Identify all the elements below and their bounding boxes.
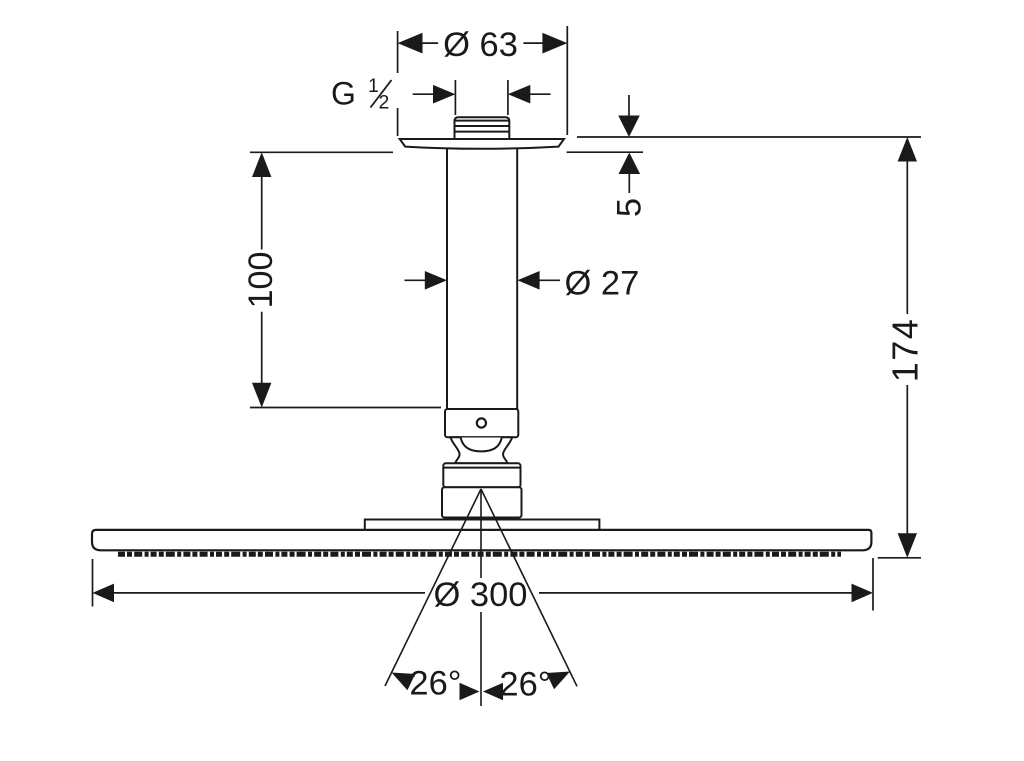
extension line right bbox=[872, 558, 874, 611]
svg-text:26°: 26° bbox=[499, 666, 551, 704]
arrow down to top line (5) bbox=[618, 116, 640, 138]
bottom reference line bbox=[878, 557, 921, 559]
nozzle face dashed band bbox=[118, 552, 841, 557]
extension line right bbox=[507, 80, 509, 115]
thread lines bbox=[455, 120, 510, 122]
center bowtie arrow right bbox=[483, 683, 503, 701]
dimension 100 bbox=[250, 152, 441, 407]
svg-text:174: 174 bbox=[885, 318, 926, 383]
extension line left bbox=[397, 31, 399, 136]
extension line left bbox=[454, 80, 456, 115]
ball joint waist bbox=[451, 437, 513, 463]
dimension Ø27 bbox=[405, 279, 561, 281]
svg-text:Ø 27: Ø 27 bbox=[565, 264, 640, 302]
shower head disc bbox=[92, 530, 871, 550]
dimension 174 bbox=[878, 161, 921, 558]
bottom reference line bbox=[250, 407, 441, 409]
spray angle right line 26deg bbox=[481, 489, 577, 686]
arrow onto right spray line bbox=[546, 672, 570, 690]
svg-text:Ø 300: Ø 300 bbox=[434, 576, 528, 614]
arrow into right G1/2 bbox=[508, 85, 530, 104]
hole bbox=[477, 418, 486, 427]
svg-text:Ø 63: Ø 63 bbox=[443, 26, 518, 64]
dim line segments bbox=[113, 592, 853, 594]
svg-text:100: 100 bbox=[242, 252, 280, 309]
nut band line bbox=[443, 467, 520, 469]
extension line right bbox=[566, 26, 568, 135]
center bowtie arrow left bbox=[460, 683, 480, 701]
escutcheon ceiling plate bbox=[400, 139, 564, 149]
arrow down 100 bbox=[252, 383, 271, 408]
arrow onto pipe left (Ø27) bbox=[425, 271, 447, 290]
ceiling reference line left bbox=[250, 151, 393, 153]
spray axis center line bbox=[480, 489, 482, 706]
ball lens bbox=[461, 438, 502, 452]
pipe (drop tube) bbox=[447, 147, 517, 409]
collar box with hole bbox=[445, 409, 518, 437]
nut box bbox=[443, 463, 520, 487]
top reference line bbox=[577, 136, 921, 138]
dimension Ø63 bbox=[398, 26, 568, 136]
spray angle left line 26deg bbox=[385, 489, 481, 686]
arrow into left G1/2 bbox=[433, 85, 455, 104]
arrow right Ø300 bbox=[852, 584, 874, 603]
dim line segments bbox=[906, 161, 908, 534]
arrow onto pipe right (Ø27) bbox=[517, 271, 539, 290]
thread connector G1/2 bbox=[455, 117, 510, 139]
dim line segments bbox=[261, 158, 263, 384]
arrow left Ø63 bbox=[398, 33, 423, 54]
svg-text:G: G bbox=[331, 76, 356, 112]
arrow up 100 bbox=[252, 152, 271, 177]
svg-text:5: 5 bbox=[611, 198, 649, 217]
mounting plate bbox=[365, 520, 600, 531]
dimension Ø300 bbox=[93, 558, 874, 611]
shaft left bbox=[405, 279, 427, 281]
shafts bbox=[413, 93, 551, 95]
shaft right bbox=[538, 279, 560, 281]
svg-text:26°: 26° bbox=[409, 665, 461, 703]
shafts bbox=[628, 95, 630, 193]
svg-text:1: 1 bbox=[368, 75, 379, 97]
dimension 5 bbox=[567, 95, 921, 193]
extension line left bbox=[92, 559, 94, 607]
arrow up 174 bbox=[898, 137, 917, 162]
arrow onto left spray line bbox=[392, 673, 416, 691]
dim shafts bbox=[421, 42, 543, 44]
spray pivot box bbox=[442, 487, 522, 517]
arrow up to bottom line (5) bbox=[619, 153, 641, 175]
dimension G 1/2 bbox=[413, 80, 551, 115]
fraction slash bbox=[371, 80, 392, 108]
arrow down 174 bbox=[898, 533, 917, 558]
bottom reference line bbox=[567, 151, 643, 153]
arrow left Ø300 bbox=[93, 584, 115, 603]
arrow right Ø63 bbox=[542, 33, 567, 54]
